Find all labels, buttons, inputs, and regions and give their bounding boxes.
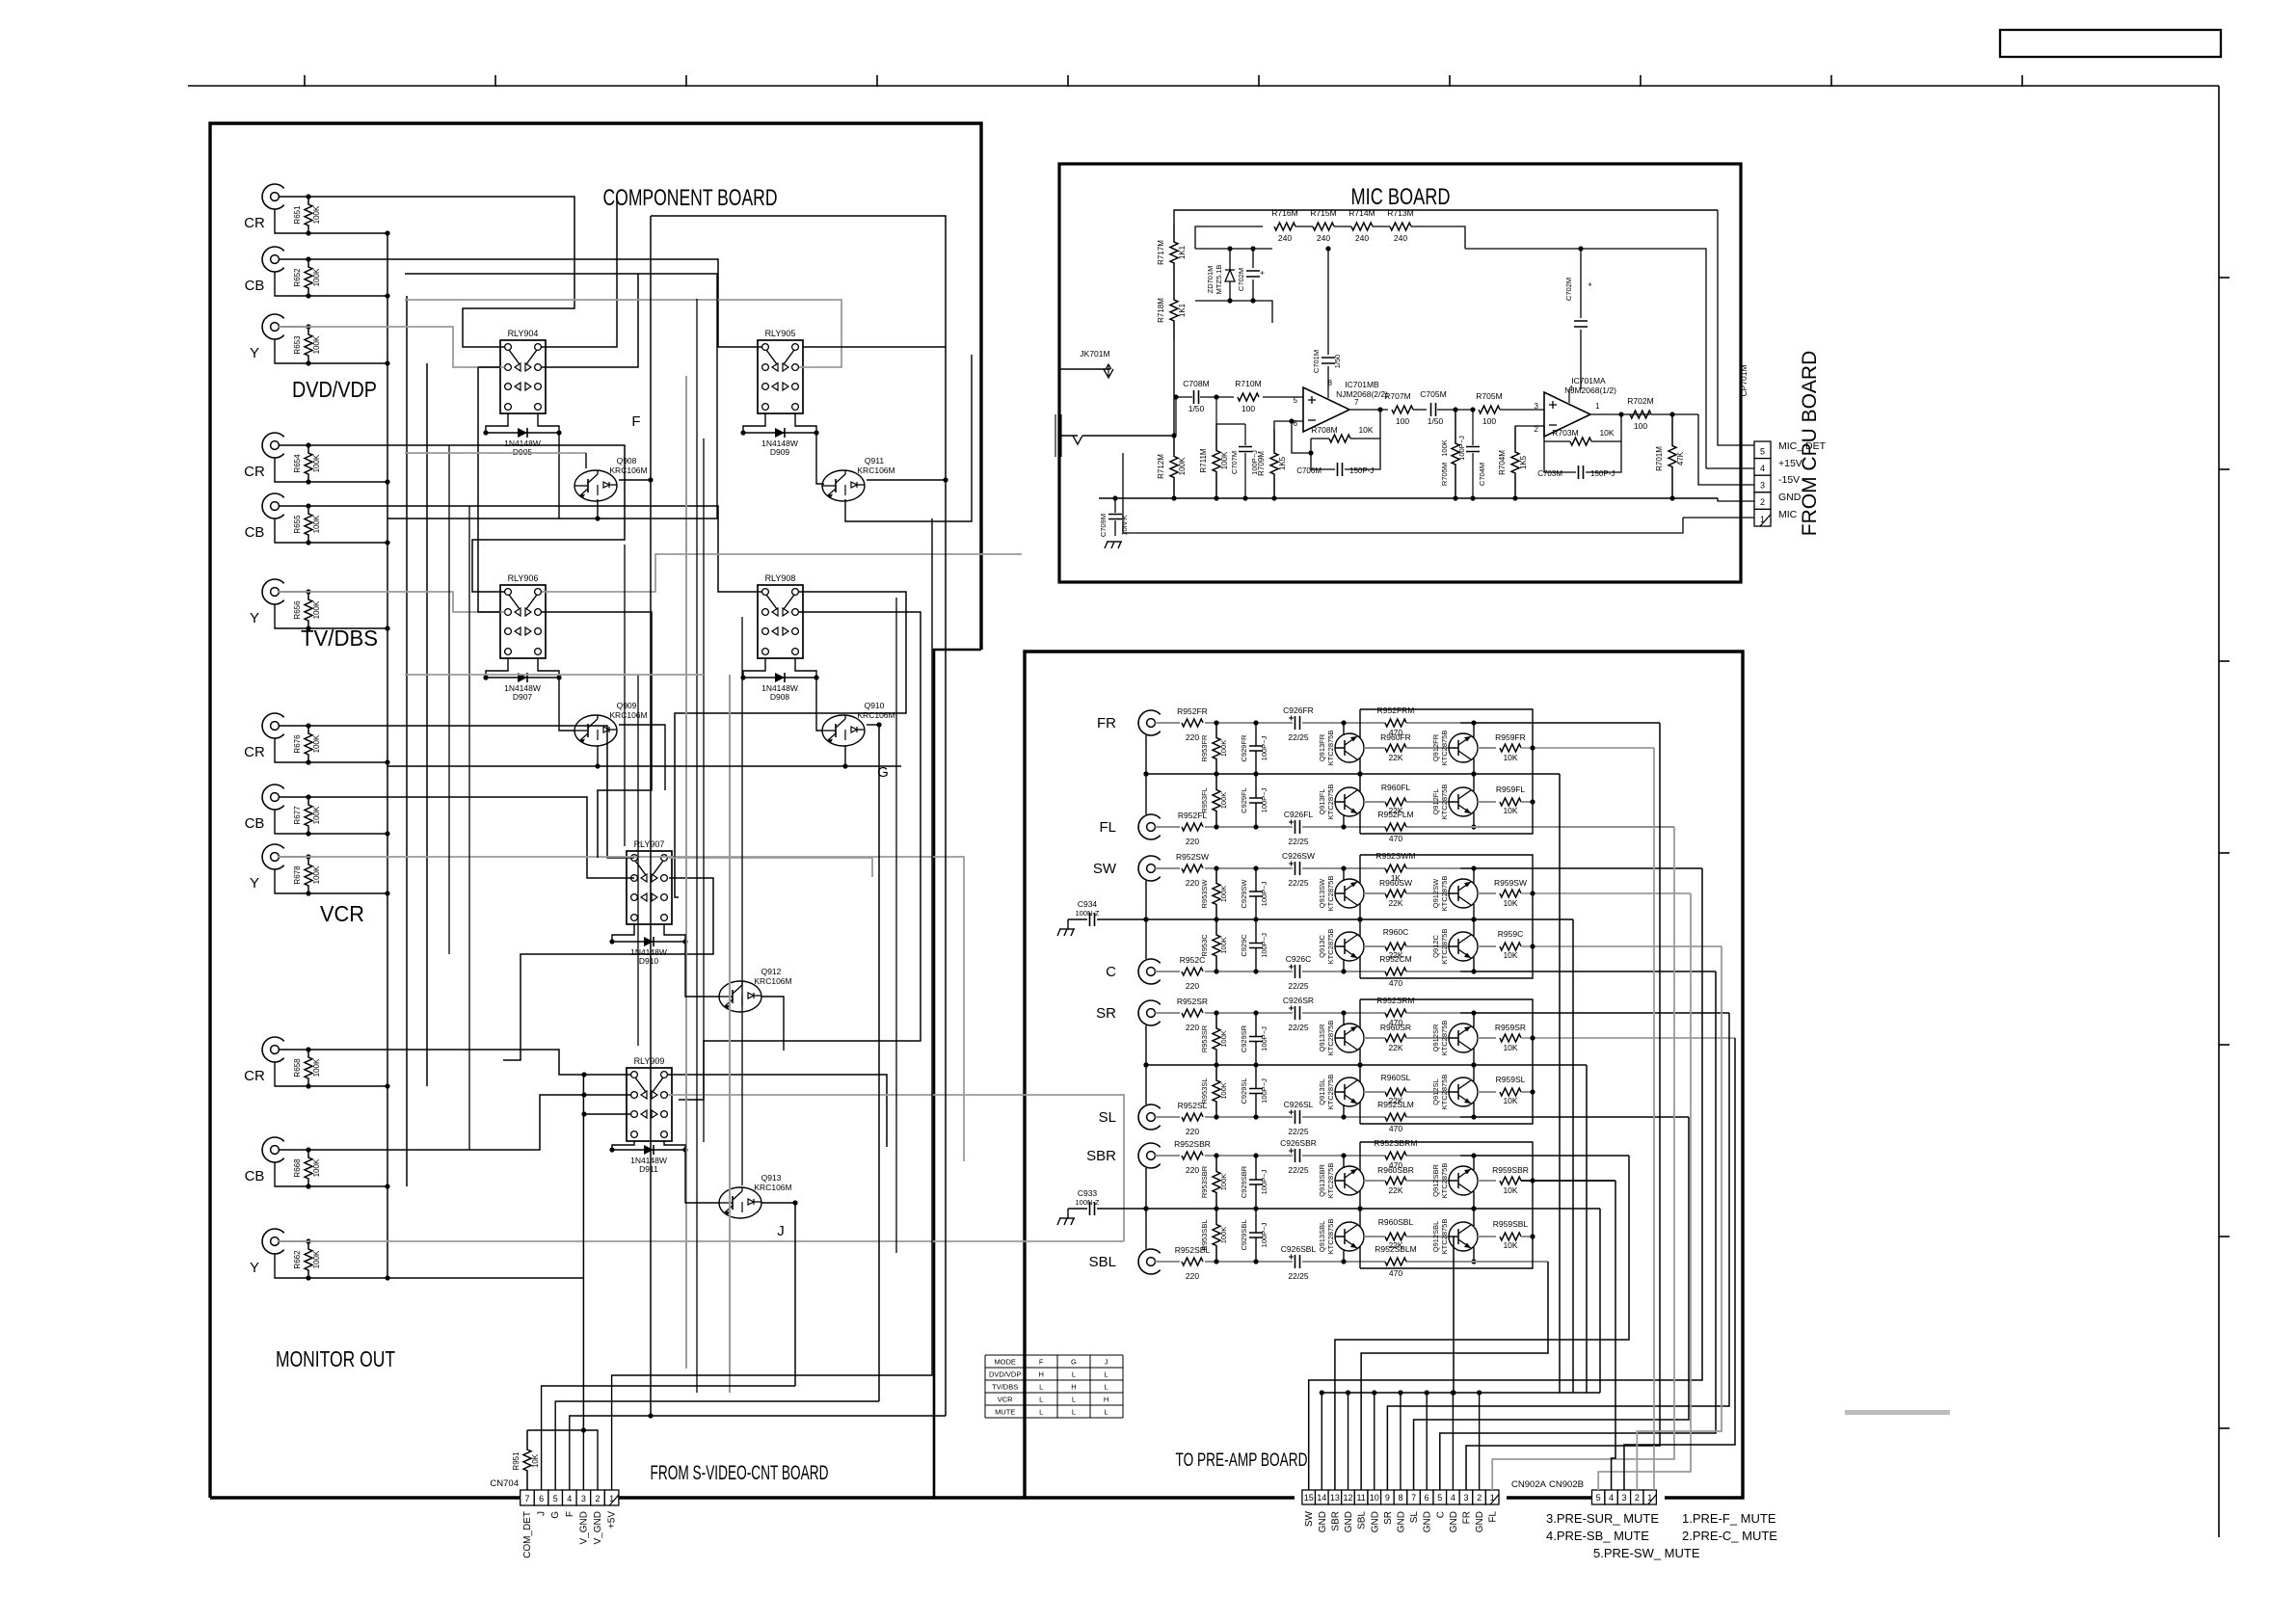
svg-text:RLY905: RLY905 <box>765 329 796 338</box>
svg-text:1K1: 1K1 <box>1178 245 1187 259</box>
diode D911 1N4148W <box>612 1149 685 1151</box>
wire IC701MA output <box>1590 413 1615 415</box>
svg-text:R707M: R707M <box>1384 391 1410 401</box>
wire relay908 outputs <box>675 592 906 897</box>
resistor R952C 220 <box>1155 971 1180 972</box>
svg-text:1: 1 <box>609 1494 614 1503</box>
wire Q909 collector <box>619 725 665 790</box>
wire J vertical <box>794 1203 796 1386</box>
wire CN704 pin fan <box>527 1430 598 1490</box>
resistor R953FR 100K <box>1213 723 1220 774</box>
capacitor C708M 1/50 <box>1176 396 1192 398</box>
resistor R652 100K <box>305 259 312 296</box>
resistor R952SW 220 <box>1155 867 1180 869</box>
svg-text:1K5: 1K5 <box>1278 456 1287 470</box>
title box top right <box>2000 30 2221 57</box>
svg-text:KTC2875B: KTC2875B <box>1326 876 1335 912</box>
svg-text:C: C <box>1106 964 1116 980</box>
svg-text:22K: 22K <box>1388 898 1402 908</box>
wire jack shell tie C <box>1145 919 1147 959</box>
svg-text:R654: R654 <box>293 454 302 473</box>
svg-text:100K: 100K <box>312 806 321 824</box>
svg-text:L: L <box>1072 1408 1076 1417</box>
svg-text:100P~J: 100P~J <box>1260 1222 1268 1247</box>
op-amp IC701MA NJM2068(1/2) <box>1544 392 1590 437</box>
svg-text:6: 6 <box>539 1494 544 1503</box>
svg-text:5: 5 <box>1596 1493 1601 1503</box>
RCA jack SR @y=1051 <box>1138 1000 1161 1025</box>
svg-text:Y: Y <box>250 1260 259 1276</box>
wire jack shell tie SW <box>1145 881 1147 919</box>
wire jack shell tie SR <box>1145 1025 1147 1065</box>
resistor R678 100K <box>305 857 312 893</box>
svg-text:1: 1 <box>1595 402 1600 411</box>
wire FL signal row <box>1205 826 1293 828</box>
svg-text:R656: R656 <box>293 600 302 620</box>
svg-text:10K: 10K <box>1503 950 1517 960</box>
svg-text:1/50: 1/50 <box>1188 404 1205 413</box>
svg-text:C929FR: C929FR <box>1240 734 1248 762</box>
wire CR vcr row <box>308 726 634 858</box>
svg-text:100P~J: 100P~J <box>1457 436 1466 461</box>
transistor Q911 KRC106M <box>822 470 865 501</box>
svg-text:R952SR: R952SR <box>1177 997 1208 1006</box>
transistor Q912 KRC106M <box>719 981 761 1012</box>
wire jack CB signal/ground @y=1193 <box>279 1149 308 1151</box>
wire SBL signal output <box>1460 1261 1548 1263</box>
wire RLY904 coil / Q908 <box>486 413 508 433</box>
svg-text:R959FR: R959FR <box>1495 732 1526 742</box>
relay RLY905 <box>758 340 803 413</box>
resistor R959FL 10K <box>1478 801 1496 803</box>
resistor R709M 1K5 <box>1270 429 1278 498</box>
svg-text:SR: SR <box>1096 1005 1116 1022</box>
resistor R953FL 100K <box>1213 774 1220 827</box>
svg-text:22/25: 22/25 <box>1288 1127 1309 1136</box>
svg-text:D909: D909 <box>770 447 790 457</box>
svg-text:IC701MB: IC701MB <box>1345 380 1379 389</box>
resistor R712M 100K <box>1170 436 1178 498</box>
svg-text:220: 220 <box>1186 1271 1199 1281</box>
resistor R952SBRM <box>1385 1152 1406 1159</box>
svg-text:1/50: 1/50 <box>1428 416 1444 426</box>
svg-text:7: 7 <box>1411 1493 1416 1503</box>
svg-text:C702M: C702M <box>1564 278 1573 301</box>
wire relay907 outputs <box>669 858 872 877</box>
svg-text:3: 3 <box>1760 481 1765 491</box>
svg-text:KTC2875B: KTC2875B <box>1440 929 1449 965</box>
resistor R960FR 22K <box>1385 744 1406 752</box>
capacitor C926SBR 22/25 <box>1295 1149 1300 1162</box>
svg-text:FL: FL <box>1488 1511 1499 1523</box>
transistor Q912FL KTC2875B <box>1449 787 1478 816</box>
svg-text:Q912C: Q912C <box>1431 935 1440 958</box>
wire CR dvd signal row <box>308 197 574 347</box>
svg-text:240: 240 <box>1278 233 1292 243</box>
diode D907 1N4148W <box>486 677 559 678</box>
RCA jack FR @y=750 <box>1138 710 1161 735</box>
bottom board line mid segment <box>1507 1496 1591 1499</box>
svg-text:R953SBL: R953SBL <box>1200 1219 1209 1250</box>
svg-text:C926FR: C926FR <box>1283 705 1314 715</box>
bottom board line left segment <box>210 1496 1295 1499</box>
svg-text:5.PRE-SW_ MUTE: 5.PRE-SW_ MUTE <box>1593 1546 1700 1560</box>
RCA jack Y input @y=889 <box>262 844 284 869</box>
wire IC701MB output <box>1349 409 1388 411</box>
svg-text:L: L <box>1105 1408 1108 1417</box>
svg-text:CB: CB <box>245 1168 265 1184</box>
svg-text:-15V: -15V <box>1778 474 1800 486</box>
svg-text:R652: R652 <box>293 268 302 287</box>
wire FR mute row out <box>1521 747 1654 749</box>
relay RLY906 <box>500 585 546 658</box>
svg-text:22K: 22K <box>1388 1043 1402 1052</box>
svg-text:100N-Z: 100N-Z <box>1075 909 1099 918</box>
svg-text:100P~J: 100P~J <box>1260 1026 1268 1051</box>
wire SBL mute row out <box>1521 1236 1533 1237</box>
svg-text:C706M: C706M <box>1296 466 1322 475</box>
transistor Q912SBR KTC2875B <box>1449 1166 1478 1195</box>
svg-text:C929SW: C929SW <box>1240 879 1248 909</box>
svg-text:R953SR: R953SR <box>1200 1024 1209 1052</box>
RCA jack CR input @y=753 <box>262 713 284 738</box>
svg-text:100K: 100K <box>312 734 321 753</box>
svg-text:6: 6 <box>1425 1493 1429 1503</box>
svg-text:3: 3 <box>1464 1493 1469 1503</box>
mode truth table <box>984 1355 986 1418</box>
svg-text:C926SBL: C926SBL <box>1281 1244 1317 1254</box>
svg-text:R960SBL: R960SBL <box>1378 1217 1414 1227</box>
svg-text:150P-J: 150P-J <box>1349 466 1374 475</box>
wire monitor ground feed <box>387 1277 583 1279</box>
capacitor C926SBL 22/25 <box>1295 1255 1300 1268</box>
svg-text:R952SW: R952SW <box>1176 852 1209 862</box>
svg-text:100: 100 <box>1482 416 1496 426</box>
svg-text:CR: CR <box>244 744 265 760</box>
wire SL signal row <box>1205 1116 1293 1118</box>
svg-text:R960SR: R960SR <box>1380 1023 1411 1032</box>
wire relay906 outputs <box>542 554 1022 592</box>
svg-text:220: 220 <box>1186 1165 1199 1175</box>
svg-text:L: L <box>1072 1396 1076 1404</box>
resistor R952FRM <box>1385 719 1406 727</box>
svg-text:SW: SW <box>1304 1510 1315 1527</box>
svg-text:10K: 10K <box>1503 1096 1517 1105</box>
ground symbol at C934 <box>1067 919 1069 929</box>
wire FL mute row out <box>1521 801 1533 803</box>
svg-text:220: 220 <box>1186 878 1199 888</box>
svg-text:11: 11 <box>1356 1493 1365 1503</box>
svg-text:220: 220 <box>1186 837 1199 846</box>
relay RLY907 <box>627 851 672 924</box>
svg-text:R658: R658 <box>293 1058 302 1078</box>
wire IC701MB power pin8 <box>1327 389 1329 398</box>
svg-text:22/25: 22/25 <box>1288 732 1309 742</box>
svg-text:5: 5 <box>1437 1493 1442 1503</box>
svg-text:G: G <box>1071 1358 1077 1367</box>
wire SR signal output <box>1460 1012 1729 1014</box>
svg-text:R708M: R708M <box>1311 425 1337 435</box>
transistor Q913 KRC106M <box>719 1187 761 1218</box>
wire jack CB signal/ground @y=827 <box>279 796 308 798</box>
page frame top tick marks <box>304 75 306 87</box>
svg-text:C709M: C709M <box>1099 514 1108 537</box>
wire FR to pin3 <box>1466 723 1660 1490</box>
svg-text:KTC2875B: KTC2875B <box>1326 785 1335 820</box>
wire jack Y signal/ground @y=339 <box>279 326 308 328</box>
svg-text:14: 14 <box>1317 1493 1326 1503</box>
resistor R654 100K <box>305 445 312 482</box>
svg-text:3: 3 <box>1535 402 1539 411</box>
wire jack shell tie SBR <box>1145 1168 1147 1209</box>
svg-text:KTC2875B: KTC2875B <box>1326 1163 1335 1199</box>
svg-text:GND: GND <box>1370 1511 1380 1532</box>
svg-text:R959SBL: R959SBL <box>1493 1219 1529 1229</box>
wire SW mute to CN902B pin5 (gray) <box>1598 893 1691 1490</box>
capacitor C707M 100P~J <box>1244 424 1246 445</box>
RCA jack CR input @y=204 <box>262 184 284 209</box>
wire jack CB signal/ground @y=525 <box>279 505 308 507</box>
resistor R952SL 220 <box>1155 1116 1180 1118</box>
svg-text:Y: Y <box>250 875 259 891</box>
svg-text:10K: 10K <box>531 1453 540 1468</box>
resistor R710M 100 <box>1216 396 1234 398</box>
resistor R960SBL 22K <box>1385 1233 1406 1240</box>
wire SW signal row <box>1205 867 1293 869</box>
svg-text:MIC BOARD: MIC BOARD <box>1351 184 1451 210</box>
wire mic input rows <box>1082 435 1176 437</box>
svg-text:L: L <box>1072 1370 1076 1379</box>
wire SR signal row <box>1205 1012 1293 1014</box>
mic board ground bus <box>1099 497 1718 499</box>
wire IC701MA power pin4 <box>1568 389 1570 403</box>
svg-text:R953FR: R953FR <box>1200 734 1209 762</box>
wire amp ground row y=803 <box>1146 773 1560 775</box>
wire jack shell tie SBL <box>1145 1209 1147 1249</box>
svg-text:TV/DBS: TV/DBS <box>992 1383 1018 1392</box>
resistor R953C 100K <box>1213 919 1220 971</box>
svg-text:Q913SW: Q913SW <box>1318 878 1326 908</box>
svg-text:3: 3 <box>1621 1493 1626 1503</box>
svg-text:R710M: R710M <box>1235 379 1261 388</box>
svg-text:240: 240 <box>1317 233 1330 243</box>
resistor R717M 1K1 <box>1170 224 1178 281</box>
wire SBL signal row <box>1205 1261 1293 1263</box>
RCA jack Y input @y=614 <box>262 579 284 604</box>
svg-text:D910: D910 <box>639 956 659 966</box>
wire SR to pin9 <box>1387 1013 1729 1490</box>
svg-text:C926SL: C926SL <box>1284 1100 1314 1109</box>
svg-text:C929SBL: C929SBL <box>1240 1219 1248 1250</box>
RCA jack CR input @y=1089 <box>262 1037 284 1062</box>
svg-text:CB: CB <box>245 815 265 832</box>
svg-text:100P~J: 100P~J <box>1260 933 1268 958</box>
svg-text:R703M: R703M <box>1552 428 1578 438</box>
svg-text:R702M: R702M <box>1627 396 1653 406</box>
capacitor C929SW 100P-J <box>1255 868 1257 891</box>
wire emitter bus y=795 <box>405 674 704 676</box>
svg-text:R717M: R717M <box>1157 240 1165 265</box>
svg-text:MUTE: MUTE <box>995 1408 1015 1417</box>
svg-text:KRC106M: KRC106M <box>754 1183 791 1192</box>
svg-text:220: 220 <box>1186 1127 1199 1136</box>
resistor R959SW 10K <box>1478 892 1496 894</box>
wire RLY909 coil / Q913 <box>612 1141 634 1150</box>
capacitor C929FR 100P-J <box>1255 723 1257 746</box>
svg-text:R960SL: R960SL <box>1381 1073 1411 1082</box>
wire G vertical <box>878 725 880 1401</box>
transistor Q912SR KTC2875B <box>1449 1024 1478 1052</box>
diode D905 1N4148W <box>486 432 559 434</box>
wire relay904 outputs <box>542 197 617 347</box>
svg-text:R952SBR: R952SBR <box>1174 1139 1211 1149</box>
transistor Q909 KRC106M <box>574 715 617 746</box>
svg-text:Q913FR: Q913FR <box>1318 733 1326 761</box>
svg-text:R677: R677 <box>293 806 302 825</box>
svg-text:220: 220 <box>1186 1023 1199 1032</box>
svg-text:L: L <box>1105 1370 1108 1379</box>
svg-text:CR: CR <box>244 1068 265 1084</box>
wire RLY905 coil / Q911 <box>743 413 765 433</box>
svg-text:Q912FR: Q912FR <box>1431 733 1440 761</box>
wire RLY908 coil / Q910 <box>743 658 765 678</box>
resistor R706M 100K vert <box>1452 410 1459 498</box>
svg-text:R711M: R711M <box>1199 448 1208 473</box>
svg-text:C929SL: C929SL <box>1240 1078 1248 1104</box>
svg-text:10K: 10K <box>1358 425 1373 435</box>
wire C signal row <box>1205 971 1293 972</box>
RCA jack CB input @y=827 <box>262 785 284 810</box>
wire amp ground row y=1105 <box>1146 1064 1587 1066</box>
resistor R701M 47K <box>1669 414 1676 498</box>
svg-text:4: 4 <box>1451 1493 1455 1503</box>
transistor Q912SW KTC2875B <box>1449 879 1478 908</box>
wire FL to pin1 (gray) <box>1492 827 1674 1490</box>
svg-text:JK701M: JK701M <box>1080 349 1109 359</box>
resistor R703M 10K <box>1570 438 1591 445</box>
svg-text:22K: 22K <box>1388 806 1402 815</box>
svg-text:R953SBR: R953SBR <box>1200 1165 1209 1198</box>
resistor R655 100K <box>305 506 312 543</box>
svg-text:R714M: R714M <box>1348 208 1375 218</box>
wire RLY907 coil / Q912 <box>612 924 634 942</box>
svg-text:220: 220 <box>1186 981 1199 991</box>
resistor R952CM <box>1385 968 1406 975</box>
svg-text:KRC106M: KRC106M <box>609 710 647 720</box>
vertical bus wire x=402 <box>387 233 388 1278</box>
svg-text:L: L <box>1039 1383 1043 1392</box>
wire SR mute to CN902B pin3 <box>1624 1038 1735 1490</box>
svg-text:C707M: C707M <box>1230 451 1239 474</box>
svg-text:10K: 10K <box>1503 806 1517 815</box>
wire Q912 collector <box>761 997 784 1051</box>
svg-text:GND: GND <box>1396 1511 1406 1532</box>
svg-text:R959SR: R959SR <box>1495 1023 1526 1032</box>
diode D909 1N4148W <box>743 432 816 434</box>
page frame top border <box>188 85 2219 87</box>
svg-text:DVD/VDP: DVD/VDP <box>292 377 377 402</box>
svg-text:+: + <box>1258 270 1267 275</box>
svg-text:C929C: C929C <box>1240 934 1248 957</box>
svg-text:100K: 100K <box>1220 451 1229 469</box>
svg-text:100K: 100K <box>1219 792 1228 810</box>
svg-text:KTC2875B: KTC2875B <box>1326 1021 1335 1056</box>
capacitor C926SW 22/25 <box>1295 862 1300 875</box>
wire +5V from CN704 pin1 <box>612 519 932 1490</box>
resistor R960SR 22K <box>1385 1034 1406 1042</box>
svg-text:100K: 100K <box>1178 457 1187 475</box>
svg-text:2: 2 <box>1635 1493 1640 1503</box>
svg-text:22/25: 22/25 <box>1288 1023 1309 1032</box>
wire SBR to pin13 <box>1335 1156 1629 1490</box>
svg-text:SW: SW <box>1093 861 1117 877</box>
transistor Q912C KTC2875B <box>1449 932 1478 961</box>
svg-text:22K: 22K <box>1388 1185 1402 1195</box>
wire relay909 outputs <box>668 1075 887 1147</box>
op-amp IC701MB NJM2068(2/2) <box>1303 387 1349 432</box>
svg-text:R651: R651 <box>293 205 302 225</box>
svg-text:R960SBR: R960SBR <box>1377 1165 1414 1175</box>
COMPONENT BOARD outline <box>210 123 981 1498</box>
svg-text:240: 240 <box>1394 233 1407 243</box>
svg-text:1K1: 1K1 <box>1178 303 1187 317</box>
wire SBR signal output <box>1460 1155 1629 1157</box>
resistor R959SBL 10K <box>1478 1236 1496 1237</box>
svg-text:F: F <box>631 413 640 430</box>
svg-text:C: C <box>1435 1511 1446 1518</box>
wire GND bus above CN902A <box>1322 1392 1600 1394</box>
svg-text:FROM S-VIDEO-CNT BOARD: FROM S-VIDEO-CNT BOARD <box>651 1462 829 1484</box>
capacitor C929SR 100P-J <box>1255 1013 1257 1037</box>
transistor Q912FR KTC2875B <box>1449 733 1478 762</box>
svg-text:150P-J: 150P-J <box>1590 469 1615 478</box>
RCA jack SW @y=901 <box>1138 856 1161 881</box>
svg-text:KRC106M: KRC106M <box>609 466 647 475</box>
resistor R668 100K <box>305 1150 312 1186</box>
svg-text:10K: 10K <box>1503 898 1517 908</box>
wire CR monitor row <box>308 1050 631 1075</box>
resistor R653 100K <box>305 327 312 363</box>
svg-text:100K: 100K <box>312 515 321 533</box>
wire jack CR signal/ground @y=753 <box>279 725 308 727</box>
capacitor C926SL 22/25 <box>1295 1110 1300 1124</box>
capacitor C929C 100P-J <box>1255 919 1257 944</box>
svg-text:MTZ5.1B: MTZ5.1B <box>1215 265 1223 295</box>
svg-text:220: 220 <box>1186 732 1199 742</box>
svg-text:100K: 100K <box>312 268 321 286</box>
svg-text:5: 5 <box>1294 396 1298 405</box>
svg-text:FROM CPU BOARD: FROM CPU BOARD <box>1799 351 1821 537</box>
connector CN902A <box>1302 1490 1316 1504</box>
svg-text:R713M: R713M <box>1387 208 1413 218</box>
resistor R953SBR 100K <box>1213 1156 1220 1209</box>
svg-text:R715M: R715M <box>1310 208 1336 218</box>
connector CN704 <box>521 1490 535 1505</box>
relay RLY909 <box>627 1068 672 1141</box>
svg-text:C926SR: C926SR <box>1283 996 1314 1005</box>
svg-text:470: 470 <box>1389 834 1402 843</box>
resistor R952SR 220 <box>1155 1012 1180 1014</box>
svg-text:MIC: MIC <box>1778 509 1798 520</box>
svg-text:22K: 22K <box>1388 950 1402 960</box>
svg-text:Q912FL: Q912FL <box>1431 788 1440 814</box>
svg-text:22/25: 22/25 <box>1288 981 1309 991</box>
svg-text:CB: CB <box>245 278 265 294</box>
wire SL emitters to ground row <box>1359 1065 1361 1082</box>
resistor R718M 1K1 <box>1170 281 1178 339</box>
wire FR emitters to ground row <box>1359 758 1361 774</box>
svg-text:Q913C: Q913C <box>1318 935 1326 958</box>
